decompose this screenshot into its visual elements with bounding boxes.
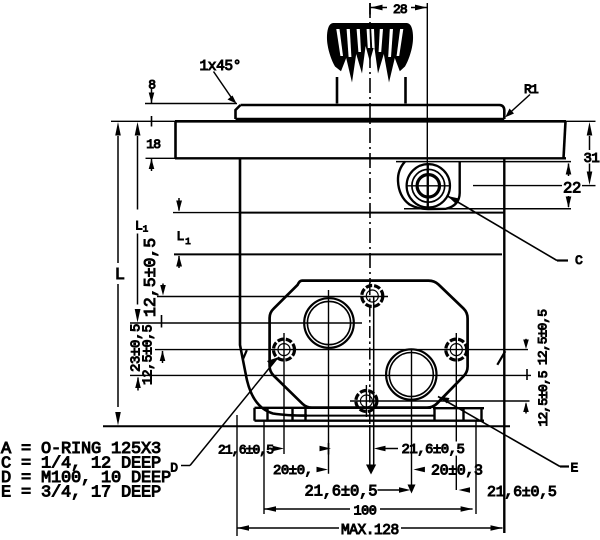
- bottom dim row3 right 21,6: [459, 484, 557, 501]
- dimension L1 (upper small): [176, 198, 191, 268]
- svg-text:L: L: [115, 266, 125, 285]
- centerline main shaft axis: [369, 3, 371, 283]
- bottom hole vertical centerline: [365, 385, 367, 417]
- big port circle 1 outer: [304, 298, 354, 348]
- svg-text:1x45°: 1x45°: [200, 59, 242, 75]
- svg-text:1: 1: [143, 225, 148, 235]
- bottom dim row3 left 21,6: [305, 483, 411, 501]
- svg-text:12,5±0,5: 12,5±0,5: [536, 371, 551, 426]
- bottom dim row1 left 21,6: [218, 443, 331, 458]
- bolt hole top: [362, 286, 383, 307]
- svg-text:E = 3/4, 17 DEEP: E = 3/4, 17 DEEP: [1, 484, 161, 503]
- bottom dim row2 left 20: [273, 463, 328, 479]
- svg-text:R1: R1: [524, 82, 539, 97]
- flange top extension right: [566, 120, 596, 122]
- svg-text:20±0,3: 20±0,3: [431, 463, 483, 480]
- leader E: [438, 397, 579, 476]
- svg-text:L: L: [177, 229, 184, 244]
- svg-text:12,5±0,5: 12,5±0,5: [142, 324, 157, 385]
- flange bottom extension left: [146, 157, 176, 159]
- port C crosshair: [408, 185, 450, 187]
- plate bottom edge: [236, 118, 505, 120]
- bolt hole left: [274, 339, 295, 360]
- dimension 28: [371, 2, 428, 17]
- svg-text:21,6±0,5: 21,6±0,5: [402, 442, 465, 458]
- svg-text:21,6±0,5: 21,6±0,5: [305, 483, 378, 501]
- body feature line 2: [174, 253, 502, 255]
- row y=401 bottom-hole centerline: [350, 400, 530, 402]
- shared down arrow of hole centerlines: [366, 465, 376, 475]
- svg-text:100: 100: [354, 505, 377, 520]
- flange top extension left: [111, 120, 175, 122]
- circle1 vertical centerline: [328, 290, 330, 474]
- top plate (8 thick): [236, 105, 505, 119]
- dimension 18: [146, 137, 160, 171]
- svg-text:C: C: [575, 253, 583, 268]
- bolt hole bottom: [356, 391, 377, 412]
- big port circle 2 inner: [389, 353, 433, 397]
- flange left edge: [174, 121, 177, 158]
- dimension MAX.128: [237, 523, 503, 539]
- left dim arrows 12,5 second: [160, 351, 166, 364]
- 28-dim extension line: [426, 3, 428, 207]
- row y=323 circle1 centerline: [130, 322, 362, 324]
- svg-text:1: 1: [185, 237, 190, 247]
- body right edge: [503, 158, 505, 533]
- spline shaft S1 crown: [327, 23, 413, 83]
- svg-text:28: 28: [393, 2, 407, 17]
- port C thread circle: [417, 175, 439, 197]
- body left edge: [240, 158, 307, 415]
- bolt hole right: [446, 339, 467, 360]
- dim extensions MAX128: [236, 415, 238, 536]
- flange top edge: [175, 120, 566, 123]
- 28-dim tick left: [369, 3, 371, 15]
- octagon flange face: [270, 281, 468, 408]
- row y=349.6 holes centerline: [155, 349, 528, 351]
- svg-text:22: 22: [563, 180, 581, 198]
- left dim arrows 12,5 first: [160, 284, 166, 328]
- dimension 100: [264, 505, 473, 520]
- svg-text:12,5±0,5: 12,5±0,5: [536, 310, 551, 365]
- svg-text:L: L: [135, 219, 142, 234]
- leader D: [170, 357, 279, 476]
- extension of body feature line left: [173, 212, 240, 214]
- oblique tick at left body edge on holes centerline: [243, 350, 247, 359]
- dimension 22: [563, 163, 581, 208]
- bottom dim row1 right 21,6: [374, 442, 464, 458]
- row y=375.4 circle2 centerline: [130, 374, 531, 376]
- circle2 vertical centerline: [411, 350, 413, 486]
- spline shaft neck: [336, 77, 339, 104]
- svg-text:18: 18: [146, 137, 160, 152]
- left dim arrows 23: [135, 377, 141, 391]
- svg-text:20±0,: 20±0,: [273, 463, 313, 479]
- oblique tick at right body edge on holes centerline: [497, 351, 505, 365]
- row y=296.5 top-hole centerline: [157, 296, 388, 298]
- mounting face bottom line: [103, 425, 510, 427]
- svg-text:31: 31: [584, 151, 600, 167]
- legend text block: [1, 440, 171, 503]
- dimension L1 line: [135, 122, 149, 323]
- body feature line: [240, 212, 504, 214]
- svg-text:MAX.128: MAX.128: [341, 523, 399, 539]
- port boss bottom extension / 22-dim lower extension: [404, 208, 571, 210]
- svg-text:E: E: [571, 461, 579, 476]
- port C outer circle: [407, 164, 450, 207]
- bottom dim row2 right 20: [413, 463, 483, 480]
- flange bottom edge: [175, 157, 566, 159]
- top hole vertical centerline: [373, 297, 375, 467]
- label 1x45deg with leader: [200, 59, 242, 104]
- label R1 with leader: [505, 82, 539, 117]
- right dim arrows upper: [523, 339, 529, 380]
- svg-text:21,6±0,5: 21,6±0,5: [487, 484, 557, 501]
- right hole vertical centerline: [455, 333, 457, 442]
- dim extensions 100: [263, 421, 265, 514]
- dimension 8: [145, 78, 237, 127]
- svg-text:21,6±0,5: 21,6±0,5: [218, 443, 273, 458]
- port boss outline: [398, 162, 460, 209]
- port C middle circle: [412, 169, 445, 202]
- left hole vertical centerline: [283, 333, 285, 454]
- port boss top line / 22-dim upper extension: [396, 161, 571, 163]
- svg-text:12,5±0,5: 12,5±0,5: [141, 238, 160, 317]
- dimension L line: [115, 122, 125, 426]
- svg-text:D: D: [170, 461, 178, 476]
- leader C: [448, 196, 584, 268]
- right dim arrows lower: [523, 402, 529, 414]
- flange right edge: [564, 121, 566, 158]
- dimension 31: [584, 122, 600, 185]
- feet left: [255, 408, 485, 421]
- port C centerline extension right: [473, 185, 562, 187]
- big port circle 2 outer: [386, 349, 436, 399]
- big port circle 1 inner: [307, 301, 350, 344]
